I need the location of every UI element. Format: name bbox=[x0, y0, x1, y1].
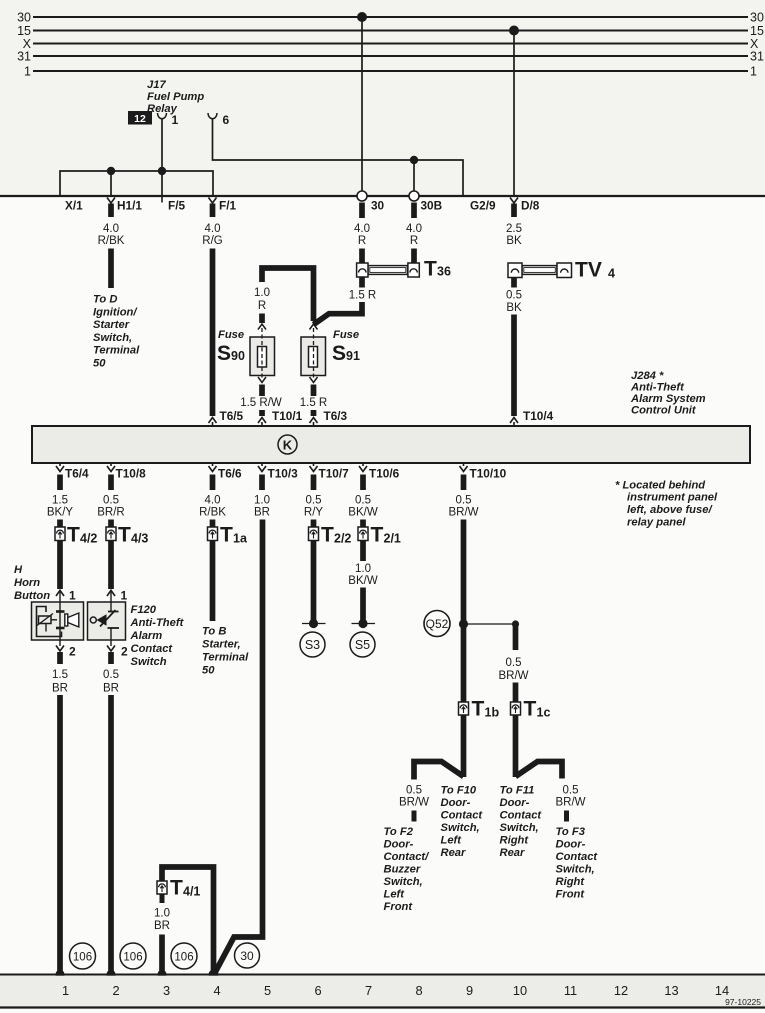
svg-text:S: S bbox=[332, 342, 346, 365]
svg-text:* Located behind: * Located behind bbox=[615, 480, 706, 492]
svg-text:14: 14 bbox=[715, 983, 729, 998]
wire horn to ground bbox=[57, 695, 63, 974]
junction on bus 15 bbox=[509, 26, 519, 36]
svg-text:Contact: Contact bbox=[131, 643, 174, 655]
connector T2/2 bbox=[309, 527, 319, 541]
svg-text:106: 106 bbox=[123, 952, 142, 964]
svg-text:1.5: 1.5 bbox=[52, 669, 68, 681]
wire label 0.5 BR/W right bbox=[498, 657, 528, 682]
label T4/1 bbox=[170, 877, 200, 900]
wire T36 to fuse S91 bbox=[314, 302, 363, 325]
terminal F/5 stub bbox=[161, 196, 163, 203]
svg-text:0.5: 0.5 bbox=[456, 495, 472, 507]
svg-text:relay panel: relay panel bbox=[627, 517, 686, 529]
svg-text:Left: Left bbox=[441, 835, 463, 847]
svg-text:4.0: 4.0 bbox=[406, 223, 422, 235]
wire label 2.5 BK bbox=[506, 223, 522, 247]
svg-text:8: 8 bbox=[415, 983, 422, 998]
svg-text:30B: 30B bbox=[421, 199, 443, 213]
svg-text:Ignition/: Ignition/ bbox=[93, 306, 138, 318]
svg-text:4/1: 4/1 bbox=[183, 885, 200, 899]
wire 0.5 BK/W upper to T2/1 bbox=[360, 520, 366, 562]
svg-text:BK: BK bbox=[506, 302, 522, 314]
wire S90 branch over to S91 bbox=[262, 268, 314, 321]
svg-text:To F3: To F3 bbox=[556, 826, 586, 838]
svg-text:15: 15 bbox=[750, 24, 764, 38]
svg-text:Alarm System: Alarm System bbox=[630, 393, 706, 405]
label T2/1 bbox=[371, 524, 401, 547]
svg-text:BK/Y: BK/Y bbox=[47, 507, 74, 519]
svg-text:4.0: 4.0 bbox=[205, 495, 221, 507]
svg-text:Door-: Door- bbox=[384, 839, 414, 851]
svg-text:1.5: 1.5 bbox=[52, 495, 68, 507]
arrow into K at T10/4 bbox=[510, 418, 518, 427]
svg-text:left, above fuse/: left, above fuse/ bbox=[627, 504, 713, 516]
svg-text:J284 *: J284 * bbox=[631, 370, 664, 382]
svg-text:Rear: Rear bbox=[500, 847, 526, 859]
svg-text:1: 1 bbox=[24, 65, 31, 79]
connector T4/2 bbox=[55, 527, 65, 541]
svg-text:6: 6 bbox=[314, 983, 321, 998]
label T4/3 bbox=[118, 524, 148, 547]
wire stub to ground 3 bbox=[159, 935, 165, 975]
wire bus30 to terminal 30 bbox=[361, 17, 363, 191]
svg-text:Control Unit: Control Unit bbox=[631, 405, 697, 417]
fuse S91 bbox=[301, 324, 326, 396]
svg-text:J17: J17 bbox=[147, 79, 166, 91]
junction dot H1/1 bbox=[107, 167, 115, 175]
svg-text:10: 10 bbox=[513, 983, 527, 998]
arrow into K at T10/1 bbox=[258, 418, 266, 427]
wire stub S91 to K bbox=[311, 410, 317, 416]
ground point S5 bbox=[350, 619, 375, 657]
svg-text:13: 13 bbox=[664, 983, 678, 998]
bus labels left bbox=[17, 11, 32, 79]
svg-text:S5: S5 bbox=[355, 638, 370, 652]
svg-text:2/1: 2/1 bbox=[384, 532, 401, 546]
junction on bus 30 bbox=[357, 12, 367, 22]
label T2/2 bbox=[321, 524, 351, 547]
main separation line bbox=[0, 195, 765, 197]
svg-text:T: T bbox=[524, 698, 537, 721]
wire label 0.5 BR bbox=[103, 669, 119, 695]
svg-text:15: 15 bbox=[17, 24, 31, 38]
svg-text:1: 1 bbox=[750, 65, 757, 79]
wire stub F2 bbox=[412, 811, 417, 822]
ground point S3 bbox=[300, 619, 326, 657]
svg-text:BR/W: BR/W bbox=[498, 670, 528, 682]
svg-text:G2/9: G2/9 bbox=[470, 199, 496, 213]
svg-text:2: 2 bbox=[121, 645, 128, 659]
svg-text:0.5: 0.5 bbox=[103, 495, 119, 507]
svg-text:Contact/: Contact/ bbox=[384, 851, 431, 863]
svg-text:Horn: Horn bbox=[14, 577, 40, 589]
wire branch to F3 bbox=[516, 762, 563, 779]
svg-text:1.0: 1.0 bbox=[355, 563, 371, 575]
svg-text:Switch: Switch bbox=[131, 656, 167, 668]
svg-text:1b: 1b bbox=[485, 706, 500, 720]
bus line X bbox=[33, 43, 748, 45]
wire label 0.5 BR/W (F2) bbox=[399, 785, 429, 809]
wire to F120 bbox=[108, 520, 114, 590]
relay J17 pin 6 cup bbox=[208, 113, 217, 119]
svg-text:BR: BR bbox=[254, 507, 270, 519]
svg-text:D/8: D/8 bbox=[521, 199, 540, 213]
svg-text:T: T bbox=[67, 524, 80, 547]
svg-text:T: T bbox=[472, 698, 485, 721]
svg-text:To F10: To F10 bbox=[441, 785, 477, 797]
svg-text:Fuel Pump: Fuel Pump bbox=[147, 91, 204, 103]
connector T1c bbox=[511, 702, 521, 715]
K exit T10/8 bbox=[107, 463, 115, 490]
svg-text:BR: BR bbox=[52, 683, 68, 695]
svg-text:T: T bbox=[321, 524, 334, 547]
wire relay pin1 down bbox=[161, 119, 163, 172]
svg-text:To D: To D bbox=[93, 294, 117, 306]
svg-text:R: R bbox=[258, 300, 266, 312]
svg-text:31: 31 bbox=[750, 50, 764, 64]
svg-text:Button: Button bbox=[14, 590, 50, 602]
svg-text:2: 2 bbox=[112, 983, 119, 998]
label T4/2 bbox=[67, 524, 97, 547]
ground dot 2 bbox=[106, 970, 115, 979]
svg-text:R: R bbox=[410, 235, 418, 247]
svg-text:Starter: Starter bbox=[93, 319, 130, 331]
svg-text:1.0: 1.0 bbox=[254, 287, 270, 299]
note H Horn Button bbox=[14, 564, 50, 602]
K exit T10/7 bbox=[310, 463, 318, 490]
wire 1.0 BR long bbox=[215, 520, 263, 974]
svg-text:T10/8: T10/8 bbox=[116, 467, 147, 481]
terminal F/1 connector bbox=[209, 198, 217, 218]
svg-text:T: T bbox=[371, 524, 384, 547]
svg-text:S: S bbox=[217, 342, 231, 365]
svg-text:4/2: 4/2 bbox=[80, 532, 97, 546]
wire label 1.5 BK/Y bbox=[47, 495, 74, 519]
svg-text:T: T bbox=[220, 524, 233, 547]
svg-text:30: 30 bbox=[17, 11, 31, 25]
svg-text:Left: Left bbox=[384, 889, 406, 901]
wire to horn button bbox=[57, 520, 63, 590]
bus labels right bbox=[750, 11, 764, 79]
wire 1.0 BK/W to S5 bbox=[360, 588, 366, 621]
svg-text:Switch,: Switch, bbox=[93, 332, 132, 344]
ground dot 1 bbox=[55, 970, 64, 979]
svg-text:1.0: 1.0 bbox=[154, 908, 170, 920]
note J284 control unit bbox=[630, 370, 706, 417]
wire label 1.5 BR bbox=[52, 669, 68, 695]
svg-text:50: 50 bbox=[93, 358, 106, 370]
svg-text:5: 5 bbox=[264, 983, 271, 998]
svg-text:Q52: Q52 bbox=[426, 617, 449, 631]
svg-text:50: 50 bbox=[202, 665, 215, 677]
wire label 0.5 BK/W bbox=[348, 495, 378, 519]
svg-text:Terminal: Terminal bbox=[202, 652, 249, 664]
wire H1/1 drop bbox=[110, 171, 112, 196]
svg-text:2.5: 2.5 bbox=[506, 223, 522, 235]
K exit T10/6 bbox=[359, 463, 367, 490]
svg-text:Switch,: Switch, bbox=[384, 876, 423, 888]
svg-text:To F2: To F2 bbox=[384, 826, 414, 838]
svg-text:BR: BR bbox=[154, 920, 170, 932]
svg-text:0.5: 0.5 bbox=[506, 290, 522, 302]
svg-text:R/Y: R/Y bbox=[304, 507, 324, 519]
track numbers 1-14 bbox=[62, 983, 729, 998]
terminal 30B circle bbox=[409, 191, 419, 218]
svg-text:BR/W: BR/W bbox=[555, 797, 585, 809]
svg-text:T6/4: T6/4 bbox=[65, 467, 89, 481]
svg-text:11: 11 bbox=[564, 983, 577, 998]
svg-text:BR: BR bbox=[103, 683, 119, 695]
relay J17 label bbox=[147, 79, 204, 115]
ground label 106 a bbox=[70, 943, 96, 969]
svg-text:0.5: 0.5 bbox=[355, 495, 371, 507]
label TV4 bbox=[575, 259, 615, 282]
svg-text:T10/10: T10/10 bbox=[470, 467, 507, 481]
wire 4.0 R/BK to starter bbox=[210, 520, 216, 622]
label Fuse S91 bbox=[332, 329, 360, 365]
connector TV4 bbox=[508, 263, 572, 278]
wire label 0.5 BR/W bbox=[448, 495, 478, 519]
ground dot 4 bbox=[209, 970, 219, 980]
wire stub S90 to K bbox=[259, 410, 265, 416]
wire relay pin6 down and right to G2/9 bbox=[213, 119, 464, 197]
svg-text:T10/4: T10/4 bbox=[523, 409, 554, 423]
wire 0.5 BR/W trunk bbox=[461, 520, 467, 778]
relay J17 pin 1 cup bbox=[158, 113, 167, 119]
svg-text:1: 1 bbox=[172, 113, 179, 127]
svg-text:Fuse: Fuse bbox=[333, 329, 359, 341]
terminal 30 circle bbox=[357, 191, 367, 218]
svg-text:0.5: 0.5 bbox=[306, 495, 322, 507]
svg-text:Door-: Door- bbox=[441, 797, 471, 809]
svg-text:R/G: R/G bbox=[202, 235, 223, 247]
svg-text:0.5: 0.5 bbox=[103, 669, 119, 681]
svg-text:Anti-Theft: Anti-Theft bbox=[130, 617, 185, 629]
connector T2/1 bbox=[358, 527, 368, 541]
svg-text:R/BK: R/BK bbox=[98, 235, 125, 247]
svg-text:T: T bbox=[424, 258, 437, 281]
svg-text:97-10225: 97-10225 bbox=[725, 997, 761, 1007]
bus line 31 bbox=[33, 55, 748, 57]
svg-text:BR/R: BR/R bbox=[97, 507, 124, 519]
svg-text:To B: To B bbox=[202, 626, 226, 638]
svg-text:2/2: 2/2 bbox=[334, 532, 351, 546]
arrow into K at T6/5 bbox=[209, 418, 217, 427]
wire 0.5 BK down to K bbox=[511, 315, 517, 417]
bus line 15 bbox=[33, 30, 748, 32]
connector T36 bbox=[357, 263, 420, 277]
terminal H1/1 connector bbox=[107, 198, 115, 218]
svg-text:1: 1 bbox=[121, 589, 128, 603]
wire 0.5 R/Y to S3 bbox=[311, 520, 317, 621]
horn button H bbox=[32, 589, 84, 665]
svg-text:12: 12 bbox=[134, 113, 146, 125]
svg-text:Buzzer: Buzzer bbox=[384, 864, 421, 876]
ground label 106 c bbox=[171, 943, 197, 969]
K exit T6/4 bbox=[56, 463, 64, 490]
wire label 4.0 R/BK bbox=[98, 223, 125, 247]
label Fuse S90 bbox=[217, 329, 245, 365]
wire label 4.0 R/BK bbox=[199, 495, 226, 519]
svg-text:BR/W: BR/W bbox=[399, 797, 429, 809]
wire stub below TV4 bbox=[511, 278, 517, 288]
wire branch to F2 bbox=[414, 762, 464, 780]
svg-text:30: 30 bbox=[240, 949, 254, 963]
svg-text:6: 6 bbox=[223, 113, 230, 127]
svg-text:T6/6: T6/6 bbox=[218, 467, 242, 481]
svg-text:9: 9 bbox=[466, 983, 473, 998]
svg-text:H1/1: H1/1 bbox=[117, 199, 142, 213]
svg-text:T6/5: T6/5 bbox=[220, 409, 244, 423]
wire label 0.5 BR/W (F3) bbox=[555, 785, 585, 809]
fuse S90 bbox=[250, 324, 275, 396]
svg-text:T10/6: T10/6 bbox=[369, 467, 400, 481]
node label 30 bbox=[235, 943, 260, 968]
svg-text:1: 1 bbox=[69, 589, 76, 603]
wire 4.0 R/G down to K bbox=[210, 249, 216, 417]
wire 4.0 R stub into T36 right bbox=[411, 249, 417, 264]
svg-text:Contact: Contact bbox=[556, 851, 599, 863]
svg-text:BK/W: BK/W bbox=[348, 507, 378, 519]
svg-text:Switch,: Switch, bbox=[441, 822, 480, 834]
svg-text:Switch,: Switch, bbox=[556, 864, 595, 876]
note F120 switch bbox=[130, 604, 185, 668]
note To F2 bbox=[384, 826, 431, 913]
label T1c bbox=[524, 698, 551, 721]
svg-text:Contact: Contact bbox=[500, 810, 543, 822]
svg-text:Contact: Contact bbox=[441, 810, 484, 822]
wire label 0.5 R/Y bbox=[304, 495, 324, 519]
svg-text:H: H bbox=[14, 564, 23, 576]
svg-text:Door-: Door- bbox=[500, 797, 530, 809]
svg-text:BK: BK bbox=[506, 235, 522, 247]
wire T4/1 branch bbox=[162, 867, 214, 973]
connector T4/1 bbox=[157, 881, 167, 894]
svg-text:Front: Front bbox=[384, 901, 414, 913]
svg-text:4.0: 4.0 bbox=[103, 223, 119, 235]
bus line 30 bbox=[33, 16, 748, 18]
svg-text:Anti-Theft: Anti-Theft bbox=[630, 382, 685, 394]
svg-text:T6/3: T6/3 bbox=[324, 409, 348, 423]
wire horizontal net X/1 H1/1 F/5 F/1 bbox=[60, 171, 213, 196]
svg-text:Alarm: Alarm bbox=[130, 630, 163, 642]
svg-text:Terminal: Terminal bbox=[93, 345, 140, 357]
svg-text:T10/7: T10/7 bbox=[319, 467, 350, 481]
wire label 4.0 R (30B) bbox=[406, 223, 422, 247]
connector T1b bbox=[459, 702, 469, 715]
svg-text:106: 106 bbox=[73, 952, 92, 964]
note To B starter bbox=[202, 626, 249, 677]
svg-text:X/1: X/1 bbox=[65, 199, 83, 213]
note located behind panel bbox=[615, 480, 718, 529]
switch F120 bbox=[88, 589, 129, 665]
svg-text:F/1: F/1 bbox=[219, 199, 236, 213]
wire label 1.0 BR (T4/1) bbox=[154, 908, 170, 933]
svg-text:4.0: 4.0 bbox=[354, 223, 370, 235]
wire stub below T4/1 bbox=[160, 894, 165, 903]
node Q52 bbox=[424, 611, 519, 637]
svg-text:Starter,: Starter, bbox=[202, 639, 241, 651]
svg-text:instrument panel: instrument panel bbox=[627, 492, 718, 504]
bottom track band bbox=[0, 975, 765, 1008]
label T1a bbox=[220, 524, 248, 547]
wire stub below Q52 node bbox=[513, 626, 519, 650]
control unit K box bbox=[32, 426, 750, 463]
svg-text:91: 91 bbox=[346, 349, 360, 363]
svg-text:1.0: 1.0 bbox=[254, 495, 270, 507]
svg-text:4.0: 4.0 bbox=[205, 223, 221, 235]
svg-text:Right: Right bbox=[500, 835, 530, 847]
junction dot pin1/F5 bbox=[158, 167, 166, 175]
svg-text:TV: TV bbox=[575, 259, 602, 282]
relay J17 terminal 12 black box bbox=[128, 111, 152, 125]
ground label 106 b bbox=[120, 943, 146, 969]
label T1b bbox=[472, 698, 500, 721]
wire stub to D ignition bbox=[108, 249, 114, 289]
wire label 0.5 BK bbox=[506, 290, 522, 315]
svg-text:F120: F120 bbox=[131, 604, 157, 616]
svg-text:S3: S3 bbox=[305, 638, 320, 652]
svg-text:3: 3 bbox=[163, 983, 170, 998]
svg-text:Right: Right bbox=[556, 876, 586, 888]
bus line 1 bbox=[33, 70, 748, 72]
svg-text:1c: 1c bbox=[537, 706, 551, 720]
note To F3 bbox=[556, 826, 599, 901]
svg-text:1a: 1a bbox=[233, 532, 248, 546]
label T36 bbox=[424, 258, 451, 281]
svg-text:1.5 R: 1.5 R bbox=[349, 290, 377, 302]
svg-text:Fuse: Fuse bbox=[218, 329, 244, 341]
svg-text:90: 90 bbox=[231, 349, 245, 363]
svg-text:R: R bbox=[358, 235, 366, 247]
svg-text:T10/3: T10/3 bbox=[268, 467, 299, 481]
svg-text:4: 4 bbox=[213, 983, 220, 998]
svg-text:To F11: To F11 bbox=[500, 785, 535, 797]
note To D text bbox=[93, 294, 140, 370]
arrow into K at T6/3 bbox=[310, 418, 318, 427]
wire stub above S90 bbox=[259, 314, 265, 324]
connector T4/3 bbox=[106, 527, 116, 541]
svg-text:Door-: Door- bbox=[556, 839, 586, 851]
wire 4.0 R stub into T36 left bbox=[359, 249, 365, 264]
wire to T1c bbox=[513, 683, 519, 778]
wire label 1.0 BK/W bbox=[348, 563, 378, 587]
wire label 4.0 R (30) bbox=[354, 223, 370, 247]
svg-text:0.5: 0.5 bbox=[563, 785, 579, 797]
wire stub below T36 bbox=[359, 277, 365, 288]
svg-text:30: 30 bbox=[750, 11, 764, 25]
svg-text:36: 36 bbox=[437, 265, 451, 279]
wire F/5 drop bbox=[161, 171, 163, 196]
K exit T10/10 bbox=[460, 463, 468, 490]
svg-text:K: K bbox=[283, 438, 293, 453]
wire label 4.0 R/G bbox=[202, 223, 223, 247]
svg-text:1: 1 bbox=[62, 983, 69, 998]
note To F10 bbox=[441, 785, 484, 860]
svg-text:2: 2 bbox=[69, 645, 76, 659]
svg-text:Front: Front bbox=[556, 889, 586, 901]
top gray band bbox=[0, 0, 765, 196]
wire 30B drop bbox=[413, 160, 415, 191]
wire stub F3 bbox=[564, 811, 569, 822]
ground dot 3 bbox=[157, 970, 166, 979]
K exit T6/6 bbox=[209, 463, 217, 490]
svg-text:4/3: 4/3 bbox=[131, 532, 148, 546]
svg-text:BK/W: BK/W bbox=[348, 575, 378, 587]
svg-text:T10/1: T10/1 bbox=[272, 409, 303, 423]
wire label 1.0 R bbox=[254, 287, 270, 312]
